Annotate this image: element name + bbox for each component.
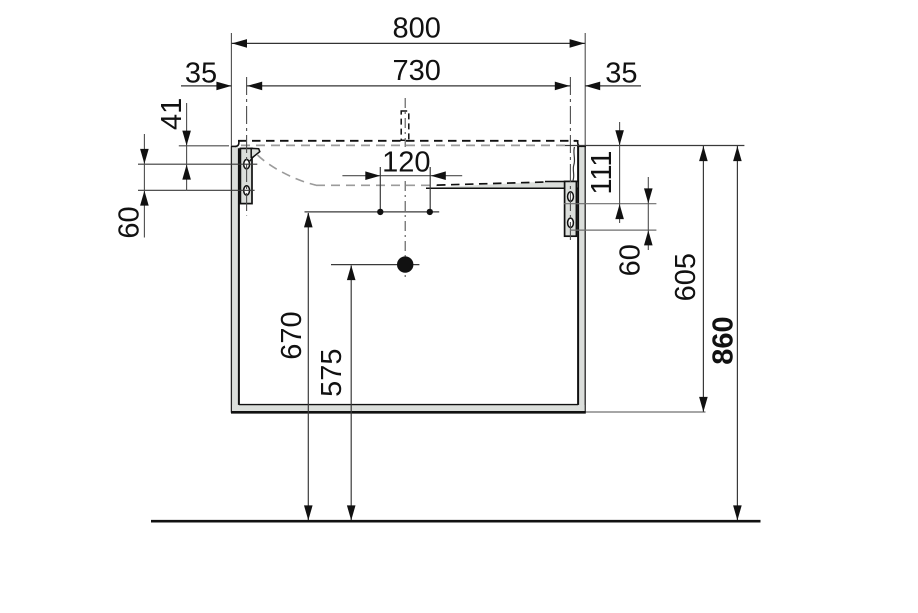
dimension 860 up arrow [733, 146, 742, 161]
right basin edge squiggle [573, 147, 575, 181]
dimension 41 line [186, 103, 188, 191]
wedge top dashed edge [437, 182, 546, 185]
extension line 120 right [429, 167, 431, 212]
bottom panel fill [232, 405, 584, 412]
dimension 670 line [307, 213, 309, 520]
left bracket plate [240, 148, 252, 203]
dimension 111 line [619, 122, 621, 223]
floor line [151, 520, 761, 523]
extension line 800 left [230, 33, 232, 146]
right top reference line [565, 145, 744, 147]
svg-text:41: 41 [156, 98, 188, 130]
svg-text:60: 60 [113, 206, 145, 238]
dimension 35 left line [181, 85, 231, 87]
svg-text:120: 120 [382, 147, 430, 179]
dimension 730 left arrow [247, 82, 262, 91]
left wall inner line [238, 148, 240, 405]
extension line cabinet bottom right [586, 411, 706, 413]
right wall inner line [577, 146, 579, 405]
right bracket plate [565, 181, 577, 236]
right bracket hole 1 reference line [564, 203, 656, 205]
basin rim dashed grey [241, 144, 567, 146]
dimension 605 up arrow [699, 146, 708, 161]
left bracket arm claw [251, 148, 260, 157]
left wall top cap [231, 145, 236, 147]
dimension 730 right arrow [555, 82, 570, 91]
bolt centerline left (730 extension) [246, 77, 248, 216]
left bracket hole 1 [244, 160, 250, 169]
dimension 800 right arrow [570, 39, 585, 48]
dimension 41 up arrow [182, 165, 191, 180]
mounting hole dot right [427, 209, 433, 215]
dimension 41 down arrow [182, 131, 191, 146]
right wall top cap [577, 145, 586, 147]
dimension 575 down arrow [347, 505, 356, 520]
dimension 800 left arrow [232, 39, 247, 48]
faucet hole dashed outline [401, 111, 409, 140]
dimension 605 down arrow [699, 397, 708, 412]
svg-text:35: 35 [185, 58, 217, 90]
dimension 575 up arrow [347, 265, 356, 280]
svg-text:35: 35 [605, 58, 637, 90]
svg-text:800: 800 [393, 13, 441, 45]
dimension 670 down arrow [304, 505, 313, 520]
extension line 800 right [584, 33, 586, 146]
basin rim dashed black [238, 140, 577, 142]
right wall panel fill [579, 146, 585, 411]
dimension 60 right line [647, 177, 649, 250]
dimension 605 line [702, 146, 704, 412]
dimension 111 down arrow [615, 130, 624, 145]
dimension 35 right line [585, 85, 641, 87]
wedge top solid edge [545, 181, 578, 183]
faucet centerline upper [404, 98, 406, 147]
reference line left hole 1 [138, 163, 257, 165]
dimension 800 line [231, 42, 585, 44]
right bracket hole 1 [568, 192, 574, 201]
dimension 860 line [736, 146, 738, 520]
svg-text:605: 605 [670, 253, 702, 301]
faucet centerline lower [404, 181, 406, 281]
basin bowl hidden bottom line [316, 184, 437, 186]
left wall panel fill [232, 147, 238, 412]
dimension 60 right up arrow [644, 230, 653, 245]
svg-text:730: 730 [393, 55, 441, 87]
extension line 120 left [379, 167, 381, 212]
dimension 35 right arrow [585, 82, 600, 91]
dimension 111 up arrow [615, 204, 624, 219]
right bracket hole 2 reference line [570, 229, 656, 231]
dimension 60 left up arrow [140, 191, 149, 206]
basin bowl hidden curve [258, 155, 317, 185]
dimension 120 right-pointing arrow [365, 171, 380, 180]
svg-text:860: 860 [707, 316, 739, 364]
left bracket claw notch line [250, 157, 253, 161]
right wall outer line [584, 146, 586, 413]
tick line 41 top [179, 145, 229, 147]
dimension 670 up arrow [304, 212, 313, 227]
bottom panel bottom thick line [231, 411, 586, 414]
drain hole circle [397, 256, 413, 272]
svg-text:111: 111 [586, 151, 618, 195]
drain reference line [331, 264, 419, 266]
wedge bottom solid edge [426, 187, 578, 189]
dimension 60 right down arrow [644, 188, 653, 203]
dimension 120 line [342, 175, 462, 177]
dimension 60 left line [143, 134, 145, 238]
mounting holes reference line [305, 211, 440, 213]
left rim hook [235, 141, 242, 147]
dimension 60 left down arrow [140, 149, 149, 164]
dimension 730 line [247, 85, 571, 87]
right support wedge fill [426, 182, 578, 189]
right rim hook [574, 141, 582, 147]
svg-text:670: 670 [276, 311, 308, 359]
reference line left hole 2 [138, 189, 255, 191]
svg-text:60: 60 [615, 244, 647, 276]
mounting hole dot left [377, 209, 383, 215]
dimension 35 left arrow [216, 82, 231, 91]
svg-text:575: 575 [316, 349, 348, 397]
dimension 120 left-pointing arrow [431, 171, 446, 180]
dimension 575 line [350, 266, 352, 521]
left bracket hole 2 [244, 186, 250, 195]
right bracket hole 2 [568, 218, 574, 227]
bolt centerline right (730 extension) [569, 77, 571, 244]
left wall outer line [230, 146, 232, 412]
bottom panel top line [239, 404, 578, 406]
dimension 860 down arrow [733, 505, 742, 520]
